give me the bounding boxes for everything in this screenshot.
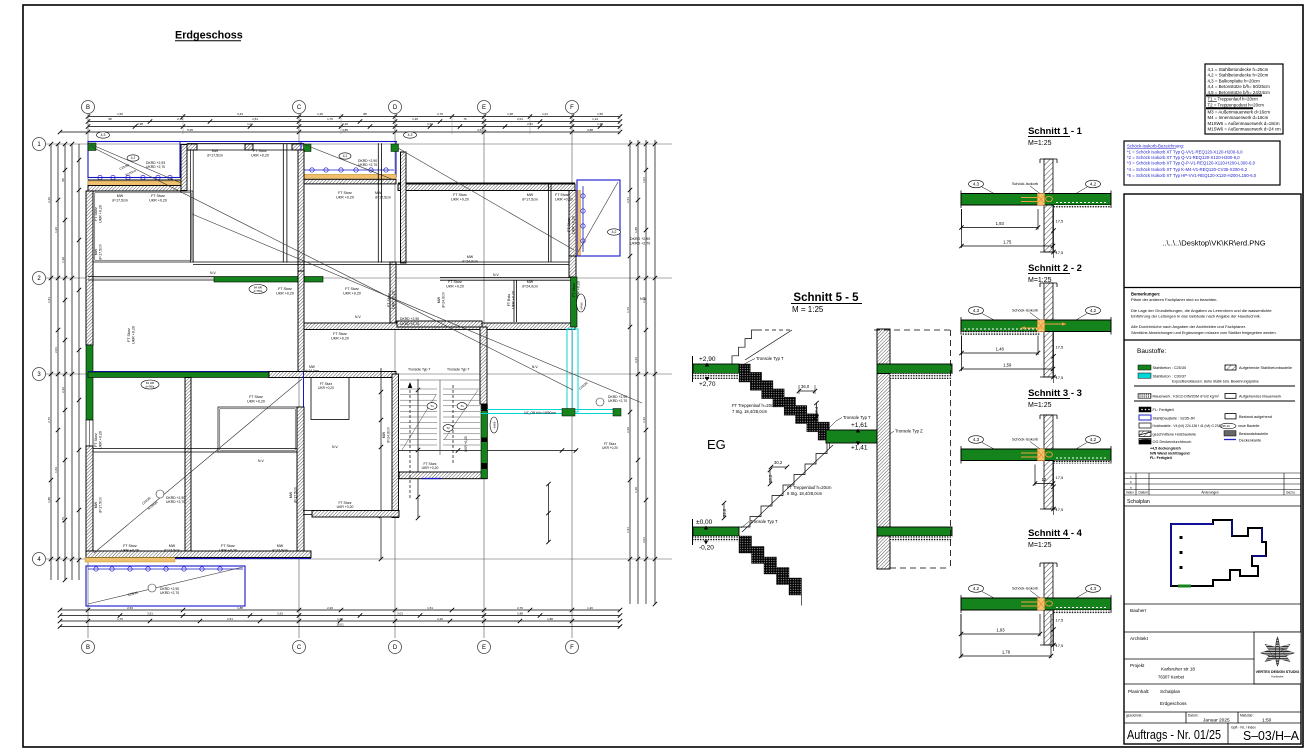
svg-text:MW: MW — [527, 280, 534, 284]
svg-text:UKR +0,20: UKR +0,20 — [98, 431, 102, 449]
green column D1 — [391, 144, 399, 152]
svg-text:FT Sturz: FT Sturz — [567, 218, 571, 232]
svg-text:UKR +0,20: UKR +0,20 — [571, 216, 575, 234]
masonry strip balcony B3 — [576, 191, 581, 257]
svg-text:2,63: 2,63 — [277, 611, 283, 615]
svg-text:2,26: 2,26 — [437, 617, 443, 621]
section 2 isokorb orange — [1038, 320, 1045, 332]
interior thin wall x515 — [513, 280, 515, 322]
svg-text:Pläne der anderen Fachplaner s: Pläne der anderen Fachplaner sind zu bea… — [1131, 297, 1218, 302]
section 2 dimensions — [962, 352, 1039, 354]
svg-text:Bemerkungen:: Bemerkungen: — [1131, 292, 1160, 297]
svg-text:Baustoffe:: Baustoffe: — [1137, 348, 1166, 355]
svg-text:Schöck-Isokorb: Schöck-Isokorb — [1012, 182, 1038, 186]
section 1 dimensions — [962, 227, 1039, 229]
top wall right wing D-F — [398, 182, 575, 184]
svg-text:FT Sturz: FT Sturz — [338, 191, 352, 195]
section 4 wall — [1044, 563, 1053, 645]
svg-text:+2,70: +2,70 — [699, 381, 716, 388]
svg-text:T1: T1 — [430, 404, 434, 408]
svg-text:Schöck-Isokorb: Schöck-Isokorb — [1012, 438, 1038, 442]
svg-text:3,51: 3,51 — [147, 611, 153, 615]
stair center divider — [439, 380, 441, 455]
svg-text:N.V.: N.V. — [332, 445, 338, 449]
green column B1 — [88, 143, 96, 151]
svg-text:N.V.: N.V. — [493, 273, 499, 277]
upper flight above thin steps — [732, 330, 758, 364]
interior thin wall x378 — [377, 143, 379, 262]
svg-text:2,26: 2,26 — [177, 117, 183, 121]
corner wall pier at B1 — [181, 145, 187, 191]
svg-text:MW: MW — [277, 544, 284, 548]
svg-text:4,2: 4,2 — [1090, 308, 1097, 313]
svg-text:3,01: 3,01 — [397, 611, 403, 615]
svg-text:UKRD +2,70: UKRD +2,70 — [166, 500, 185, 504]
svg-text:76: 76 — [463, 117, 467, 121]
section 1 wall — [1044, 159, 1053, 252]
svg-text:4,3: 4,3 — [408, 133, 413, 137]
thin room lower-left — [218, 407, 297, 452]
svg-text:4,2: 4,2 — [1090, 182, 1097, 187]
svg-text:Schnitt 3 - 3: Schnitt 3 - 3 — [1028, 388, 1082, 399]
svg-text:1,75: 1,75 — [1003, 240, 1012, 245]
svg-text:UKR +0,20: UKR +0,20 — [422, 466, 439, 470]
legend box top right — [1205, 64, 1283, 134]
svg-text:UKRD +2,70: UKRD +2,70 — [400, 322, 419, 326]
svg-text:Schalplan: Schalplan — [1160, 689, 1181, 694]
svg-text:-0,20: -0,20 — [699, 545, 714, 552]
svg-text:OG Deckendurchbruch: OG Deckendurchbruch — [1153, 440, 1192, 444]
svg-text:2,01: 2,01 — [54, 347, 58, 353]
svg-text:+2,90: +2,90 — [699, 356, 716, 363]
long middle wall y323 — [302, 323, 575, 330]
svg-text:2,01: 2,01 — [642, 537, 646, 543]
interior dimension chain x418 — [417, 379, 419, 518]
svg-text:d=17,5cm: d=17,5cm — [98, 497, 102, 513]
diagonal lower-left room — [94, 379, 302, 553]
section 3 bubbles — [969, 436, 984, 444]
svg-text:17,5: 17,5 — [1056, 618, 1065, 623]
svg-text:Maßstab :: Maßstab : — [1240, 714, 1254, 718]
svg-text:2,38: 2,38 — [137, 122, 143, 126]
svg-text:M3 = Außenmauerwerk d=16cm: M3 = Außenmauerwerk d=16cm — [1208, 109, 1271, 114]
svg-text:4,5 = Betonstütze b/h= 24/24cm: 4,5 = Betonstütze b/h= 24/24cm — [1208, 90, 1271, 95]
diagonal balcony B1 — [90, 144, 181, 183]
isokorb blue joint + black square — [877, 430, 879, 443]
svg-text:UKRD +2,70: UKRD +2,70 — [160, 591, 179, 595]
svg-text:Alle Durchbrüche nach Angaben: Alle Durchbrüche nach Angaben der Archit… — [1131, 324, 1246, 329]
svg-text:8 Stg. 18,4/28,0cm: 8 Stg. 18,4/28,0cm — [787, 491, 823, 496]
svg-text:FT Sturz: FT Sturz — [387, 293, 391, 307]
svg-text:FT Sturz: FT Sturz — [278, 287, 292, 291]
svg-text:4xW6: 4xW6 — [493, 421, 497, 428]
svg-text:17,5: 17,5 — [1056, 643, 1065, 648]
svg-text:Schnitt 1 - 1: Schnitt 1 - 1 — [1028, 126, 1083, 137]
svg-text:1,51: 1,51 — [47, 297, 51, 303]
top landing beam +2.90 — [693, 364, 739, 374]
svg-text:Bauherr: Bauherr — [1130, 608, 1147, 613]
row 1 blue deck edge line — [88, 141, 397, 143]
vertical dim x548 below cyan — [548, 484, 550, 542]
svg-text:UKR +0,20: UKR +0,20 — [251, 153, 269, 157]
svg-text:B: B — [86, 645, 90, 651]
projekt row — [1124, 658, 1254, 660]
section 4 green slab — [961, 598, 1111, 610]
svg-text:64 W6: 64 W6 — [146, 381, 155, 385]
svg-text:MW: MW — [117, 194, 124, 198]
revision table — [1124, 472, 1301, 474]
svg-text:UKR +0,20: UKR +0,20 — [149, 198, 167, 202]
plan misc black squares on stair east wall — [482, 405, 488, 412]
materials legend — [1138, 365, 1151, 370]
svg-text:Stahlbeton : C30/37: Stahlbeton : C30/37 — [1153, 375, 1187, 379]
svg-text:UKRD +2,70: UKRD +2,70 — [146, 165, 165, 169]
svg-text:MW: MW — [382, 431, 386, 438]
svg-text:1,63: 1,63 — [337, 617, 343, 621]
interior thin wall x549 — [548, 183, 550, 262]
svg-text:36,0: 36,0 — [801, 384, 810, 389]
svg-text:UKR +0,20: UKR +0,20 — [131, 326, 135, 344]
svg-text:4,3: 4,3 — [973, 182, 980, 187]
svg-text:E: E — [482, 645, 486, 651]
svg-text:Schöck-Isokorb-Bezeichnung:: Schöck-Isokorb-Bezeichnung: — [1127, 144, 1184, 149]
svg-text:UKR +0,20: UKR +0,20 — [336, 195, 354, 199]
svg-text:4,2: 4,2 — [343, 154, 348, 158]
svg-text:FT Sturz: FT Sturz — [249, 395, 263, 399]
interior thin room top-left — [93, 191, 193, 262]
svg-text:C: C — [297, 645, 302, 651]
svg-text:M=1:25: M=1:25 — [1028, 402, 1052, 409]
svg-text:d=24,0cm: d=24,0cm — [522, 284, 538, 288]
svg-text:17,5: 17,5 — [1056, 475, 1065, 480]
svg-text:MW: MW — [169, 544, 176, 548]
svg-text:Schnitt 4 - 4: Schnitt 4 - 4 — [1028, 528, 1083, 539]
svg-text:4,3: 4,3 — [1090, 586, 1097, 591]
upper flight stipple band — [739, 364, 829, 448]
svg-text:1,88: 1,88 — [237, 606, 243, 610]
svg-text:2,51: 2,51 — [527, 122, 533, 126]
svg-text:Karlsruhe: Karlsruhe — [1272, 675, 1284, 679]
svg-text:2,76: 2,76 — [437, 112, 443, 116]
row2 walls — [88, 276, 214, 278]
svg-text:FT Sturz: FT Sturz — [94, 207, 98, 221]
svg-text:Stahl(bau)teile : S235-JR: Stahl(bau)teile : S235-JR — [1153, 416, 1196, 420]
svg-text:1,76: 1,76 — [626, 307, 630, 313]
west wall green beam segment — [86, 345, 93, 420]
section 3 green slab — [961, 449, 1111, 461]
green beam row2 — [214, 277, 323, 283]
bottom exterior wall — [86, 551, 311, 558]
section 4 isokorb orange — [1038, 598, 1045, 610]
svg-text:235-19: 235-19 — [1221, 424, 1230, 428]
stair east wall upper — [480, 327, 487, 404]
svg-text:Tronsole Typ T: Tronsole Typ T — [843, 415, 871, 420]
svg-text:Holzbauteile : V4 (h/t) 224-13: Holzbauteile : V4 (h/t) 224-136 f 41 (h/… — [1153, 424, 1221, 428]
section right wall hatched — [877, 329, 890, 364]
svg-text:*1 = Schöck Isokorb XT Typ Q-V: *1 = Schöck Isokorb XT Typ Q-VV1-REQ120-… — [1127, 150, 1243, 155]
svg-text:17,5: 17,5 — [1056, 250, 1065, 255]
svg-text:+1,41: +1,41 — [851, 445, 868, 452]
key plan sketch — [1171, 520, 1266, 586]
svg-text:Bestandsbauteile: Bestandsbauteile — [1239, 432, 1268, 436]
svg-text:UKR +0,20: UKR +0,20 — [446, 284, 464, 288]
section 3 dimensions — [1035, 483, 1053, 485]
svg-text:FT Sturz: FT Sturz — [123, 544, 137, 548]
svg-text:Datum: Datum — [1139, 491, 1149, 495]
cyan beam box vertical at F — [567, 329, 578, 412]
svg-text:T1 = Treppenlauf h=20cm: T1 = Treppenlauf h=20cm — [1208, 97, 1259, 102]
svg-text:d=24,0cm: d=24,0cm — [441, 292, 445, 308]
svg-text:1,63: 1,63 — [427, 122, 433, 126]
svg-text:d=24,0cm: d=24,0cm — [462, 259, 478, 263]
svg-text:Tronsole Typ T: Tronsole Typ T — [750, 519, 778, 524]
svg-text:2,63: 2,63 — [634, 357, 638, 363]
svg-text:2,63: 2,63 — [127, 606, 133, 610]
stair west wall x392 — [392, 374, 399, 518]
svg-text:DKRD +2,90: DKRD +2,90 — [400, 317, 419, 321]
section 1 isokorb orange — [1038, 194, 1045, 206]
svg-text:d=17,5cm: d=17,5cm — [272, 548, 288, 552]
svg-text:1,38: 1,38 — [61, 257, 65, 263]
svg-text:UKR +0,20: UKR +0,20 — [98, 205, 102, 223]
divider above materials — [1124, 339, 1301, 341]
svg-text:17,5: 17,5 — [1056, 507, 1065, 512]
svg-text:Tronsole Typ T: Tronsole Typ T — [756, 356, 784, 361]
small room lower middle — [311, 378, 349, 420]
balcony B4 bottom-left blue outline — [86, 566, 245, 606]
svg-text:76307 Kenbet: 76307 Kenbet — [1158, 675, 1185, 680]
svg-text:1,51: 1,51 — [252, 117, 258, 121]
svg-text:2,26: 2,26 — [47, 197, 51, 203]
svg-text:d=24,0cm: d=24,0cm — [386, 427, 390, 443]
svg-text:Karlsruher str 18: Karlsruher str 18 — [1161, 667, 1195, 672]
svg-text:UKR +0,20: UKR +0,20 — [343, 291, 361, 295]
svg-text:Erdgeschoss: Erdgeschoss — [1160, 701, 1187, 706]
svg-text:1,01: 1,01 — [642, 177, 646, 183]
middle landing beam +1.61 — [826, 430, 877, 443]
svg-text:UZ_OB b/h=18/50cm: UZ_OB b/h=18/50cm — [524, 411, 556, 415]
svg-text:4,3: 4,3 — [973, 437, 980, 442]
svg-text:FT Sturz: FT Sturz — [151, 194, 165, 198]
svg-text:Änderungen: Änderungen — [1201, 491, 1219, 495]
svg-text:88: 88 — [363, 112, 367, 116]
svg-text:FT Sturz: FT Sturz — [127, 328, 131, 342]
svg-text:1,26: 1,26 — [317, 112, 323, 116]
schoeck blue box — [1124, 141, 1280, 185]
svg-text:d=17,5cm: d=17,5cm — [164, 548, 180, 552]
interior wall y262 — [193, 261, 575, 263]
grid bubbles top — [82, 101, 95, 114]
svg-text:4,4 = Betonstütze b/h= 50/25cm: 4,4 = Betonstütze b/h= 50/25cm — [1208, 84, 1271, 89]
section 1 green slab — [961, 194, 1111, 206]
svg-text:1,26: 1,26 — [587, 606, 593, 610]
lower flight thin steps — [739, 443, 827, 527]
svg-text:Stahlbeton : C25/30: Stahlbeton : C25/30 — [1153, 366, 1187, 370]
svg-text:UKRD +2,70: UKRD +2,70 — [630, 241, 650, 245]
svg-text:*3 = Schöck Isokorb XT Typ Q-P: *3 = Schöck Isokorb XT Typ Q-P-V1-REQ120… — [1127, 161, 1256, 166]
svg-text:Tronsole Typ T: Tronsole Typ T — [408, 368, 430, 372]
svg-text:D: D — [393, 105, 398, 111]
svg-text:4,2 = Stahlbetondecke h=20cm: 4,2 = Stahlbetondecke h=20cm — [1208, 73, 1269, 78]
svg-text:UKR +0,20: UKR +0,20 — [219, 548, 237, 552]
svg-text:2,76: 2,76 — [517, 606, 523, 610]
svg-text:N/N Wand nichttragend: N/N Wand nichttragend — [1150, 451, 1190, 455]
svg-text:1,93: 1,93 — [996, 628, 1005, 633]
svg-text:UKR +0,20: UKR +0,20 — [247, 399, 265, 403]
svg-text:N.V.: N.V. — [532, 365, 538, 369]
interior wall x185 lower — [185, 378, 191, 556]
svg-text:UKR +0,20: UKR +0,20 — [602, 446, 618, 450]
svg-text:UKR +0,20: UKR +0,20 — [464, 436, 468, 452]
svg-text:1,38: 1,38 — [597, 122, 603, 126]
svg-text:4,3: 4,3 — [101, 133, 106, 137]
svg-text:d=780a: d=780a — [146, 385, 155, 389]
svg-text:1,63: 1,63 — [54, 467, 58, 473]
stair enclosure top wall — [397, 321, 482, 327]
svg-text:+4,5 deckengleich: +4,5 deckengleich — [1150, 447, 1181, 451]
svg-text:Schöck-Isokorb: Schöck-Isokorb — [1012, 309, 1038, 313]
svg-text:d=17,5cm: d=17,5cm — [98, 244, 102, 260]
wall at C lower — [298, 271, 304, 376]
svg-text:2,26: 2,26 — [626, 427, 630, 433]
wall green band top — [877, 364, 952, 374]
svg-text:Expositionsklassen: siehe Stat: Expositionsklassen: siehe Statik bzw. Be… — [1172, 380, 1259, 384]
svg-text:UKR +0,20: UKR +0,20 — [121, 548, 139, 552]
bottom wall lower middle — [303, 510, 314, 512]
stair east wall green beam — [481, 405, 488, 479]
svg-text:4,3 = Balkonplatte h=20cm: 4,3 = Balkonplatte h=20cm — [1208, 78, 1261, 83]
svg-text:1,76: 1,76 — [61, 517, 65, 523]
svg-text:UKR +0,20: UKR +0,20 — [511, 291, 515, 309]
svg-text:Projekt: Projekt — [1130, 663, 1145, 668]
svg-text:UKR +0,20: UKR +0,20 — [337, 505, 354, 509]
svg-text:M=1:25: M=1:25 — [1028, 542, 1052, 549]
svg-text:±0,00: ±0,00 — [696, 519, 713, 526]
svg-text:18,5: 18,5 — [768, 474, 773, 483]
svg-text:Datum :: Datum : — [1188, 714, 1199, 718]
svg-text:1,76: 1,76 — [1002, 650, 1011, 655]
svg-text:d=17,5cm: d=17,5cm — [293, 487, 297, 503]
vertex logo star — [1275, 644, 1290, 656]
svg-text:FT Sturz: FT Sturz — [572, 283, 576, 297]
svg-text:MW: MW — [289, 491, 293, 498]
svg-text:Sämtliche Abweichungen und Erg: Sämtliche Abweichungen und Ergänzungen m… — [1131, 331, 1277, 335]
diagonal leader line 2 — [192, 214, 642, 403]
svg-text:1,51: 1,51 — [427, 606, 433, 610]
svg-text:M4 = Innenmauerwerk d=18cm: M4 = Innenmauerwerk d=18cm — [1208, 115, 1269, 120]
svg-text:2,26: 2,26 — [327, 606, 333, 610]
svg-text:*2 = Schöck Isokorb XT Typ Q-V: *2 = Schöck Isokorb XT Typ Q-V1-REQ120-X… — [1127, 155, 1240, 160]
diagonal balcony B2 — [303, 144, 394, 180]
svg-text:Schnitt 2 - 2: Schnitt 2 - 2 — [1028, 263, 1082, 274]
svg-text:2,26: 2,26 — [61, 387, 65, 393]
svg-text:17,5: 17,5 — [1056, 219, 1065, 224]
svg-text:MW: MW — [94, 248, 98, 255]
svg-text:M = 1:25: M = 1:25 — [792, 305, 824, 314]
svg-text:1,01: 1,01 — [247, 122, 253, 126]
svg-text:*5 = Schöck Isokorb XT Typ HP-: *5 = Schöck Isokorb XT Typ HP-VV1-REQ120… — [1127, 173, 1257, 178]
diagonal right wing — [398, 148, 574, 250]
wall x400 under D — [401, 152, 407, 263]
svg-text:2,88: 2,88 — [517, 611, 523, 615]
svg-text:1,26: 1,26 — [412, 117, 418, 121]
section 2 wall — [1044, 283, 1053, 377]
svg-text:D: D — [393, 645, 398, 651]
section 2 green slab — [961, 320, 1111, 332]
svg-text:UKRD +2,70: UKRD +2,70 — [608, 399, 627, 403]
svg-text:N.V.: N.V. — [210, 271, 216, 275]
svg-text:2,51: 2,51 — [626, 197, 630, 203]
svg-text:N.V.: N.V. — [355, 315, 361, 319]
diagonal balcony B3 — [578, 182, 618, 252]
svg-text:UKR +0,20: UKR +0,20 — [391, 291, 395, 309]
svg-text:4,85: 4,85 — [342, 128, 348, 132]
svg-text:4,2: 4,2 — [1090, 437, 1097, 442]
svg-text:Schöck-Isokorb: Schöck-Isokorb — [1012, 587, 1038, 591]
svg-text:Architekt: Architekt — [1130, 636, 1149, 641]
F line wall below balcony — [569, 256, 576, 277]
svg-text:d=17,5cm: d=17,5cm — [375, 195, 391, 199]
west exterior wall lower — [86, 446, 93, 555]
wall under balcony B1 with masonry band — [88, 179, 186, 181]
svg-text:2,26: 2,26 — [642, 297, 646, 303]
west wall window — [86, 420, 93, 446]
bauherr row — [1124, 603, 1301, 605]
svg-text:1,48: 1,48 — [996, 347, 1005, 352]
svg-text:UKR +0,20: UKR +0,20 — [451, 197, 469, 201]
svg-text:Schalplan: Schalplan — [1127, 499, 1150, 505]
svg-text:1,01: 1,01 — [542, 112, 548, 116]
svg-text:FT Sturz: FT Sturz — [448, 280, 462, 284]
svg-text:*4 = Schöck Isokorb XT Typ K-M: *4 = Schöck Isokorb XT Typ K-M4-V1-REQ12… — [1127, 167, 1248, 172]
diagonal balcony B4 — [88, 567, 243, 604]
plan grid lines — [87, 114, 89, 638]
svg-text:geschnittene Holzbauteile: geschnittene Holzbauteile — [1153, 433, 1196, 437]
svg-text:2,26: 2,26 — [342, 122, 348, 126]
svg-text:12: 12 — [1042, 477, 1047, 482]
cyan beam horizontal UZ — [481, 409, 621, 411]
svg-text:4,1 = Stahlbetondecke h=25cm: 4,1 = Stahlbetondecke h=25cm — [1208, 67, 1269, 72]
bottom landing beam 0.00 — [693, 527, 739, 536]
svg-text:MW: MW — [437, 296, 441, 303]
svg-text:S–03/H–A: S–03/H–A — [1243, 728, 1299, 743]
svg-text:d=17,5cm: d=17,5cm — [522, 197, 538, 201]
logo box — [1254, 632, 1301, 684]
svg-text:DKRD +2,90: DKRD +2,90 — [630, 237, 650, 241]
section 4 dimensions — [961, 633, 1040, 635]
svg-text:4,2: 4,2 — [131, 156, 136, 160]
svg-text:4,51: 4,51 — [477, 128, 483, 132]
section 3 isokorb orange — [1038, 449, 1045, 461]
svg-text:FT Sturz: FT Sturz — [453, 193, 467, 197]
divider above remarks — [1124, 287, 1301, 289]
svg-text:30,2: 30,2 — [774, 460, 783, 465]
svg-text:1,38: 1,38 — [634, 487, 638, 493]
svg-text:88: 88 — [61, 178, 65, 182]
svg-text:Schnitt 5 - 5: Schnitt 5 - 5 — [793, 292, 859, 304]
svg-text:d=17,5cm: d=17,5cm — [112, 198, 128, 202]
svg-text:32,0: 32,0 — [722, 508, 727, 517]
svg-text:E: E — [482, 105, 486, 111]
svg-text:MW: MW — [212, 149, 219, 153]
svg-text:Planinhalt:: Planinhalt: — [1128, 689, 1149, 694]
svg-text:FL: Fertigteil: FL: Fertigteil — [1153, 408, 1174, 412]
row3 wall middle — [269, 372, 396, 378]
title block main box — [1124, 194, 1301, 744]
green column C1 — [304, 144, 312, 152]
architekt row — [1124, 631, 1301, 633]
svg-text:Deckenkante: Deckenkante — [1239, 439, 1261, 443]
